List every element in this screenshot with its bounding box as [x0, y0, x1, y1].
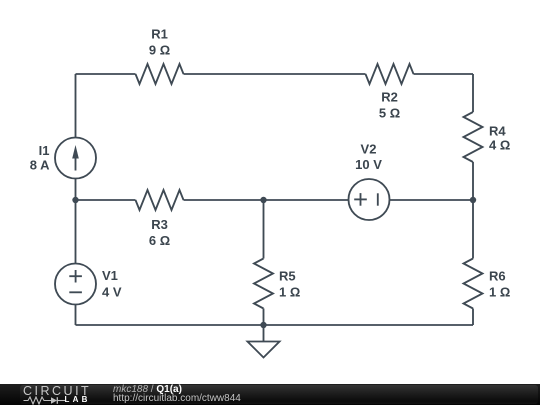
svg-text:9 Ω: 9 Ω: [149, 43, 170, 58]
svg-text:1 Ω: 1 Ω: [279, 285, 300, 300]
current source I1 arrow: [72, 145, 79, 171]
voltage source V1 minus sign: [69, 291, 82, 293]
wire bottom rail: [76, 324, 474, 326]
svg-text:R5: R5: [279, 269, 296, 284]
CircuitLab logo wordmark LAB: [65, 395, 91, 404]
wire R5 branch lower segment: [263, 309, 265, 326]
svg-text:10 V: 10 V: [355, 157, 382, 172]
footer meta line 1: [113, 384, 182, 395]
resistor R2: [366, 64, 414, 84]
svg-text:V1: V1: [102, 268, 118, 283]
svg-text:6 Ω: 6 Ω: [149, 233, 170, 248]
junction node ground: [260, 322, 266, 328]
wire right rail lower segment: [472, 309, 474, 326]
junction node R5 top: [260, 197, 266, 203]
voltage source V1 circle: [55, 264, 96, 305]
svg-text:4 V: 4 V: [102, 285, 122, 300]
wire mid rail right segment: [390, 199, 474, 201]
voltage source V2 minus sign: [377, 193, 379, 205]
svg-text:R3: R3: [151, 217, 168, 232]
footer meta line 2: [113, 393, 241, 404]
wire R5 branch upper segment: [263, 200, 265, 259]
CircuitLab logo wordmark CIRCUIT: [23, 384, 91, 398]
svg-text:R2: R2: [381, 90, 398, 105]
resistor R4: [464, 112, 483, 162]
ground stub wire: [263, 325, 265, 341]
wire top rail right segment: [414, 73, 474, 75]
wire left rail between I1 and V1: [75, 179, 77, 264]
junction node right mid rail: [470, 197, 476, 203]
svg-text:R6: R6: [489, 269, 506, 284]
svg-text:R1: R1: [151, 26, 168, 41]
svg-text:I1: I1: [39, 143, 50, 158]
voltage source V2 plus sign: [354, 193, 367, 206]
svg-text:4 Ω: 4 Ω: [489, 138, 510, 153]
current source I1 circle: [55, 138, 96, 179]
wire top rail middle segment: [184, 73, 366, 75]
voltage source V1 plus sign: [69, 270, 82, 283]
svg-text:8 A: 8 A: [30, 158, 50, 173]
wire mid rail left segment: [76, 199, 136, 201]
resistor R1: [136, 64, 184, 84]
svg-text:V2: V2: [361, 142, 377, 157]
resistor R6: [464, 259, 483, 309]
resistor R5: [254, 259, 273, 309]
wire left rail top segment: [75, 74, 77, 138]
footer bar: [0, 384, 540, 405]
voltage source V2 circle: [349, 179, 390, 220]
wire left rail bottom segment: [75, 305, 77, 326]
wire right rail between R4 and mid rail: [472, 162, 474, 200]
svg-text:1 Ω: 1 Ω: [489, 285, 510, 300]
footer pill background: [20, 385, 538, 405]
svg-text:5 Ω: 5 Ω: [379, 105, 400, 120]
wire top rail left segment: [76, 73, 136, 75]
wire right rail upper segment: [472, 74, 474, 112]
resistor R3: [136, 190, 184, 210]
svg-text:R4: R4: [489, 124, 506, 139]
ground symbol triangle: [248, 342, 280, 358]
junction node left mid rail: [72, 197, 78, 203]
wire right rail between mid rail and R6: [472, 200, 474, 259]
logo resistor squiggle and diode: [23, 396, 65, 405]
wire mid rail between R3 and V2: [184, 199, 349, 201]
